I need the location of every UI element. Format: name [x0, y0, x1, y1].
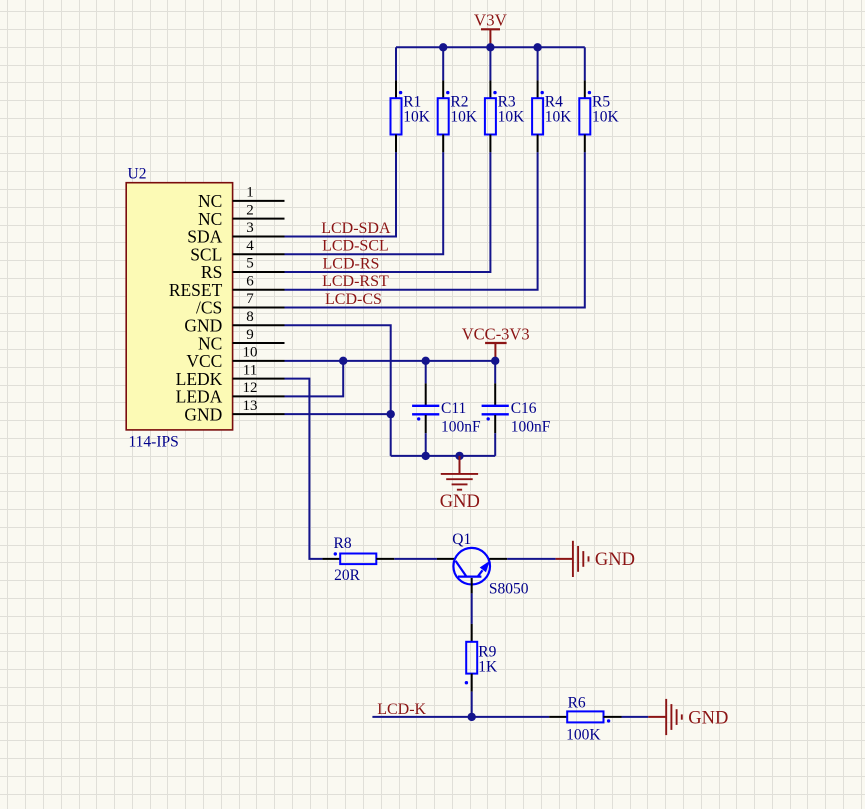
resistor R1 10K — [391, 80, 431, 152]
net label LCD-SDA — [321, 220, 391, 237]
svg-text:20R: 20R — [334, 567, 361, 584]
U2 pin 11 LEDK — [176, 362, 285, 389]
svg-text:2: 2 — [246, 202, 254, 218]
svg-text:4: 4 — [246, 238, 254, 254]
power symbol VCC-3V3 — [462, 325, 530, 361]
U2 pin 5 RS — [201, 256, 285, 283]
wire R1 to pin 3 (LCD-SDA) — [285, 152, 397, 236]
svg-text:LCD-SCL: LCD-SCL — [322, 238, 389, 255]
net label LCD-RST — [322, 273, 389, 290]
junction pin13/ground drop — [387, 410, 395, 418]
svg-text:V3V: V3V — [474, 10, 508, 29]
svg-text:S8050: S8050 — [489, 581, 529, 598]
svg-text:1K: 1K — [478, 659, 498, 676]
resistor R9 1K — [465, 624, 498, 692]
svg-text:Q1: Q1 — [452, 531, 471, 548]
U2 pin 10 VCC — [186, 345, 284, 372]
resistor R3 10K — [485, 80, 525, 152]
junction R9 / LCD-K — [468, 713, 476, 721]
wire V3V top bus — [396, 46, 585, 48]
svg-text:GND: GND — [595, 550, 635, 570]
wire R9 to LCD-K node — [471, 692, 473, 717]
U2 pin 12 LEDA — [176, 380, 285, 407]
svg-text:GND: GND — [440, 492, 480, 512]
svg-text:8: 8 — [246, 309, 254, 325]
svg-text:1: 1 — [246, 185, 254, 201]
wire R3 to pin 5 (LCD-RS) — [285, 152, 491, 272]
wire R2 to pin 4 (LCD-SCL) — [285, 152, 444, 254]
junction C11 bottom — [422, 452, 430, 460]
svg-text:GND: GND — [184, 404, 222, 424]
U2 pin 2 NC — [198, 202, 285, 229]
net label LCD-K — [377, 701, 426, 718]
wire R8 to Q1 base — [394, 558, 437, 560]
wire R4 to pin 6 (LCD-RST) — [285, 152, 538, 289]
svg-text:100K: 100K — [566, 727, 601, 744]
svg-text:10: 10 — [243, 345, 258, 361]
svg-text:114-IPS: 114-IPS — [129, 434, 179, 451]
capacitor C16 100nF — [482, 383, 551, 435]
U2 pin 9 NC — [198, 327, 285, 354]
svg-text:LCD-CS: LCD-CS — [325, 291, 382, 308]
resistor R6 100K — [549, 695, 621, 744]
U2 pin 3 SDA — [187, 220, 284, 247]
wire ground bus under capacitors — [391, 455, 496, 457]
ground symbol GND below capacitors — [440, 456, 480, 512]
U2 pin 8 GND — [184, 309, 284, 336]
svg-text:6: 6 — [246, 273, 254, 289]
svg-text:10K: 10K — [498, 109, 525, 126]
wire Q1 emitter to GND — [507, 558, 555, 560]
wire top bus to R1 — [395, 47, 397, 80]
wire pin 10 VCC bus — [285, 360, 496, 362]
wire C16 to ground bus — [494, 433, 496, 456]
svg-text:100nF: 100nF — [511, 419, 551, 436]
wire C11 to ground bus — [425, 433, 427, 456]
junction GND stem — [455, 452, 463, 460]
U2 pin 7 /CS — [196, 291, 284, 318]
U2 pin 1 NC — [198, 185, 285, 212]
U2 pin 13 GND — [184, 398, 284, 425]
svg-text:R8: R8 — [334, 535, 352, 552]
junction pin12/VCC bus — [339, 357, 347, 365]
svg-text:R6: R6 — [568, 695, 586, 712]
svg-text:LCD-SDA: LCD-SDA — [321, 220, 391, 237]
wire VCC bus to C11 — [425, 361, 427, 384]
svg-text:13: 13 — [243, 398, 258, 414]
wire pin 12 LEDA up to VCC bus — [285, 361, 344, 397]
svg-text:9: 9 — [246, 327, 254, 343]
resistor R2 10K — [438, 80, 478, 152]
svg-text:LCD-RST: LCD-RST — [322, 273, 389, 290]
wire LCD-K net — [372, 716, 549, 718]
svg-text:10K: 10K — [545, 109, 573, 126]
wire top bus to R2 — [442, 47, 444, 80]
svg-text:LCD-RS: LCD-RS — [323, 255, 380, 272]
value 114-IPS — [129, 434, 179, 451]
svg-text:5: 5 — [246, 256, 254, 272]
svg-text:11: 11 — [243, 362, 257, 378]
ground symbol GND at Q1 emitter — [556, 541, 635, 577]
transistor Q1 S8050 — [437, 531, 529, 597]
power symbol V3V — [474, 10, 508, 47]
wire Q1 collector to R9 — [471, 593, 473, 624]
junction VCC stem / C16 — [491, 357, 499, 365]
wire VCC bus to C16 — [494, 361, 496, 384]
U2 pin 6 RESET — [169, 273, 285, 300]
wire R6 to GND — [622, 716, 649, 718]
svg-text:7: 7 — [246, 291, 254, 307]
IC U2 114-IPS body — [126, 183, 232, 430]
junction on top bus at R2 — [439, 43, 447, 51]
wire top bus to R3 — [489, 47, 491, 80]
svg-text:C11: C11 — [441, 400, 466, 417]
net label LCD-RS — [323, 255, 380, 272]
wire pin 8 GND to ground bus — [285, 325, 391, 456]
junction C11 top — [422, 357, 430, 365]
svg-text:10K: 10K — [450, 109, 478, 126]
svg-text:C16: C16 — [511, 400, 537, 417]
svg-text:3: 3 — [246, 220, 254, 236]
junction on top bus at R3/V3V — [486, 43, 494, 51]
svg-text:10K: 10K — [403, 109, 431, 126]
resistor R4 10K — [532, 80, 572, 152]
svg-text:10K: 10K — [592, 109, 620, 126]
resistor R5 10K — [579, 80, 619, 152]
U2 pin 4 SCL — [190, 238, 284, 265]
junction on top bus at R4 — [533, 43, 541, 51]
ground symbol GND at R6 — [648, 699, 728, 735]
svg-text:GND: GND — [688, 708, 728, 728]
capacitor C11 100nF — [412, 383, 481, 435]
wire R5 to pin 7 (LCD-CS) — [285, 152, 585, 307]
svg-text:12: 12 — [243, 380, 258, 396]
designator U2 — [128, 166, 147, 183]
net label LCD-CS — [325, 291, 382, 308]
wire top bus to R4 — [537, 47, 539, 80]
resistor R8 20R — [322, 535, 394, 584]
wire pin 11 LEDK down to R8 — [285, 379, 323, 559]
svg-text:VCC-3V3: VCC-3V3 — [462, 325, 530, 344]
net label LCD-SCL — [322, 238, 389, 255]
wire pin 13 GND to ground bus — [285, 413, 391, 415]
wire top bus to R5 — [584, 47, 586, 80]
svg-text:LCD-K: LCD-K — [377, 701, 426, 718]
svg-text:100nF: 100nF — [441, 419, 481, 436]
svg-text:U2: U2 — [128, 166, 147, 183]
